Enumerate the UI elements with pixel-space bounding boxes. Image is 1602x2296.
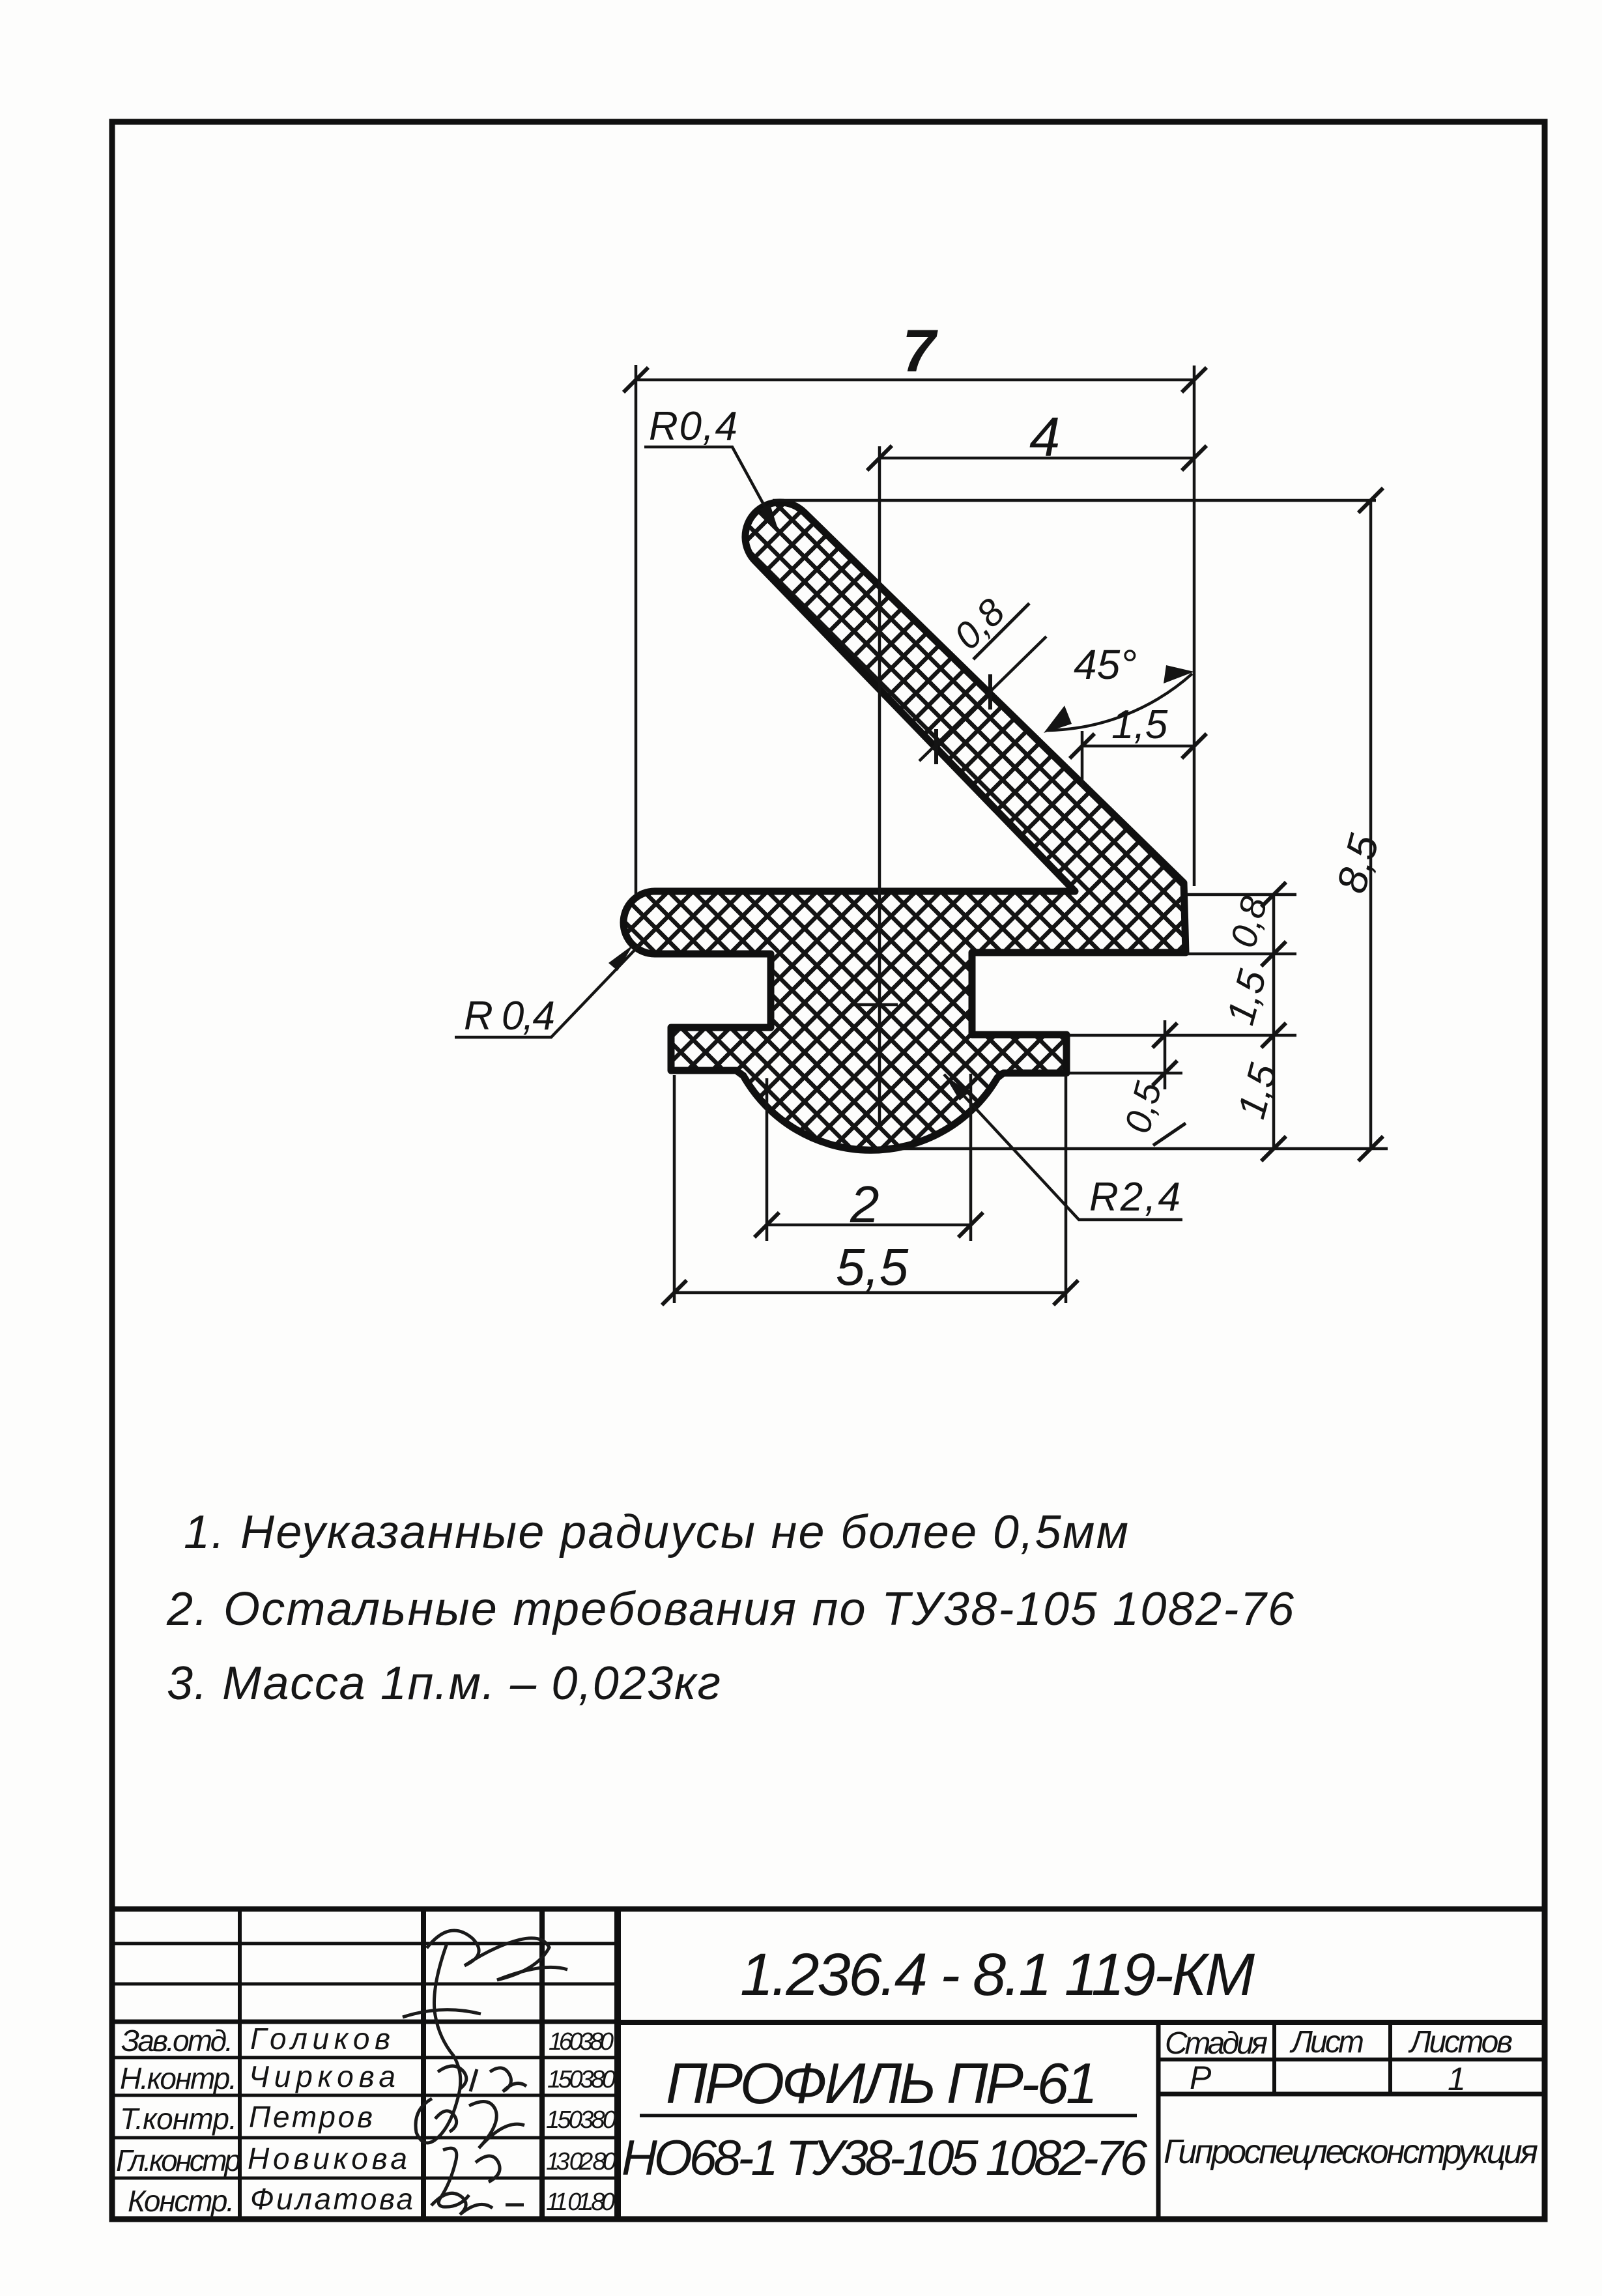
svg-text:2. Остальные требования по: 2. Остальные требования по ТУ38-105 1082…: [166, 1583, 1294, 1635]
dimension text labels: [464, 318, 1388, 1296]
svg-text:4: 4: [1029, 407, 1060, 468]
ticks on 0,8 arm dim: [988, 674, 992, 710]
svg-text:Констр.: Констр.: [128, 2184, 235, 2218]
arrow of 45 arc right end: [1164, 665, 1194, 683]
svg-text:R2,4: R2,4: [1089, 1175, 1180, 1220]
dim line 0,5 x=1788: [1164, 1020, 1167, 1089]
leader R0,4 top: [644, 447, 779, 533]
dimension line 5,5: [674, 1291, 1066, 1295]
svg-text:Зав.отд.: Зав.отд.: [121, 2024, 233, 2058]
svg-text:Петров: Петров: [249, 2100, 373, 2134]
signature scribbles: [403, 1930, 567, 2215]
arrow R2,4: [944, 1074, 969, 1100]
arrow of 45 arc left end: [1044, 706, 1072, 733]
arrow R0,4 top: [760, 504, 779, 533]
stadia box horizontals: [1158, 2058, 1545, 2061]
extension x=1035 for 5,5: [673, 1075, 676, 1303]
extension line y=1373 arm end: [1187, 893, 1296, 897]
svg-text:Р: Р: [1190, 2059, 1212, 2096]
svg-text:0,8: 0,8: [1222, 892, 1275, 952]
extension x=1636 for 5,5: [1065, 1075, 1068, 1303]
title block lines: [112, 1909, 1545, 2219]
left table horizontals: [112, 1942, 618, 1945]
extension line x=1661 for 1,5: [1081, 731, 1084, 787]
title block texts: [116, 1942, 1538, 2218]
svg-text:Листов: Листов: [1408, 2025, 1513, 2059]
svg-text:Гл.констр: Гл.констр: [116, 2144, 241, 2177]
underline of 0,8 on arm: [973, 603, 1029, 659]
svg-text:160380: 160380: [549, 2028, 614, 2056]
arrowheads: [608, 504, 1194, 1100]
stadia box verticals: [1156, 2022, 1161, 2217]
svg-text:1,5: 1,5: [1229, 1059, 1285, 1123]
svg-text:150380: 150380: [546, 2106, 616, 2134]
svg-text:Т.контр.: Т.контр.: [120, 2102, 237, 2136]
svg-text:Голиков: Голиков: [250, 2022, 390, 2056]
svg-text:3. Масса 1п.м. – 0,023кг: 3. Масса 1п.м. – 0,023кг: [167, 1657, 721, 1710]
centre mark of bulb: [852, 1003, 898, 1007]
extension x=1490 for 2: [969, 1074, 973, 1241]
dimension line 2: [767, 1224, 971, 1227]
dimension line 4: [880, 457, 1194, 460]
svg-text:8,5: 8,5: [1328, 829, 1388, 898]
extension x=1177 for 2: [765, 1078, 769, 1241]
extension line right edge (for 7, 4, 45, 1.5): [1193, 366, 1196, 886]
right dimension column x=1955: [1272, 895, 1276, 1149]
svg-text:Новикова: Новикова: [248, 2142, 407, 2175]
title block top line: [112, 1906, 1545, 1912]
svg-text:7: 7: [902, 318, 938, 384]
extension line left of dim 7: [635, 365, 638, 895]
centre/extension line x=1350: [878, 446, 881, 1127]
svg-text:0,8: 0,8: [946, 591, 1013, 658]
profile PR-61 cross-section body (crosshatched): [623, 502, 1186, 1150]
arrow R0,4 bottom: [608, 945, 633, 971]
svg-text:1. Неуказанные радиусы не бо: 1. Неуказанные радиусы не более 0,5мм: [184, 1506, 1128, 1558]
svg-text:Гипроспецлесконструкция: Гипроспецлесконструкция: [1164, 2133, 1538, 2171]
svg-text:45°: 45°: [1074, 641, 1137, 688]
svg-text:5,5: 5,5: [836, 1238, 909, 1296]
dimension line 8.5 vertical: [1369, 500, 1373, 1149]
dimension line 7: [636, 379, 1194, 382]
svg-text:R0,4: R0,4: [649, 404, 737, 449]
signature column labels: [116, 2022, 413, 2218]
svg-text:1,5: 1,5: [1111, 702, 1168, 747]
svg-text:Стадия: Стадия: [1165, 2026, 1268, 2061]
extension line y=1647 wing bottom: [1070, 1072, 1182, 1075]
svg-text:13 02 80: 13 02 80: [546, 2148, 616, 2175]
svg-text:Филатова: Филатова: [250, 2182, 413, 2216]
extension line y=1589 wing top: [1070, 1034, 1296, 1037]
svg-text:R 0,4: R 0,4: [464, 994, 555, 1039]
leader R2,4: [944, 1074, 1182, 1220]
line under 1.236.4: [618, 2020, 1545, 2025]
svg-text:ПРОФИЛЬ ПР-61: ПРОФИЛЬ ПР-61: [666, 2051, 1098, 2116]
left table verticals: [238, 1909, 242, 2219]
notes: [166, 1506, 1294, 1710]
45 degree arc: [1048, 674, 1192, 730]
underline 0,5: [1153, 1123, 1186, 1145]
svg-text:1.236.4 - 8.1 119-КМ: 1.236.4 - 8.1 119-КМ: [740, 1942, 1255, 2008]
dimension slash ticks: [623, 367, 1383, 1305]
dates: [546, 2028, 616, 2216]
svg-text:1: 1: [1448, 2061, 1466, 2097]
svg-text:Лист: Лист: [1289, 2025, 1364, 2059]
top extension line y=768: [773, 499, 1376, 502]
svg-text:0,5: 0,5: [1117, 1077, 1169, 1137]
dimension line 1,5 top: [1082, 745, 1194, 748]
extension line y=1464 flange bottom: [1187, 953, 1296, 956]
underline of PROFIL: [640, 2114, 1137, 2117]
svg-text:11 01.80: 11 01.80: [546, 2188, 615, 2216]
svg-text:Чиркова: Чиркова: [249, 2059, 395, 2093]
svg-text:Н.контр.: Н.контр.: [120, 2061, 237, 2095]
leader R0,4 bottom left: [455, 945, 639, 1037]
svg-text:1,5: 1,5: [1218, 965, 1274, 1029]
bottom extension line y=1763: [873, 1147, 1388, 1151]
svg-text:2: 2: [850, 1175, 880, 1233]
0,8 arm thickness dim line: [919, 637, 1046, 761]
svg-text:150380: 150380: [547, 2066, 616, 2093]
svg-text:НО68-1 ТУ38-105 1082-76: НО68-1 ТУ38-105 1082-76: [622, 2131, 1148, 2186]
